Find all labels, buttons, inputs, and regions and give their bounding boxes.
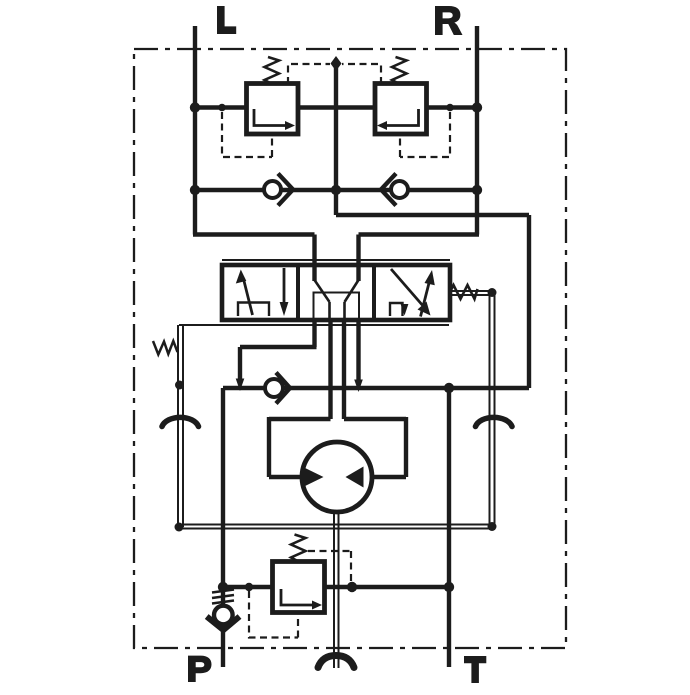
DV1 right position: long diagonal arrow [391, 269, 424, 307]
pilot dashed: RV3 vent to downstream [308, 551, 351, 582]
pilot diamond junction J1 [331, 56, 342, 71]
node: R at relief line [472, 102, 482, 112]
DV1 left position: down arrow [283, 268, 286, 303]
relief valve RV2 internal arrow [385, 109, 419, 126]
relief valve RV2 spring [392, 57, 407, 84]
motor triangle right [346, 467, 364, 488]
pilot dashed: RV2 sense loop [400, 112, 450, 157]
feedback link: right double vertical [490, 293, 495, 528]
feedback pivot dot right bottom [488, 522, 497, 531]
feedback pivot dot right top [488, 288, 497, 297]
wire: R work line jog to valve [359, 235, 480, 282]
relief valve RV1 spring [265, 57, 280, 84]
feedback centring spring left [153, 341, 178, 355]
arrowhead: flow into gallery at x=358.5 [354, 380, 363, 393]
DV1 left position: blocked port box [238, 303, 269, 317]
DV1 centre position: metering box [314, 293, 360, 319]
rotation arc right [476, 417, 513, 426]
wire: tank return from node J1 down and around right side [336, 68, 529, 388]
feedback pivot dot left mid [175, 381, 184, 390]
relief valve RV3 internal arrow [281, 589, 314, 605]
wire: valve inlet stem A with jog [240, 320, 317, 381]
node: L at check line [190, 185, 200, 195]
DV1 left position: up arrow [244, 279, 253, 315]
pilot dashed: RV1 sense loop [222, 112, 272, 157]
shaft drain arc [318, 656, 354, 668]
wire: motor line right (stem C to motor) [344, 320, 406, 477]
DV1 right position: short diagonal arrow [421, 283, 430, 317]
check valve CV4 ball [214, 606, 233, 625]
node: T at gallery [444, 383, 454, 393]
wire: L work line jog to valve [193, 235, 315, 282]
node: L at relief line [190, 102, 200, 112]
wire: valve tank stem D [356, 320, 360, 381]
relief valve RV2 (right) body [375, 84, 427, 135]
node: R at check line [472, 185, 482, 195]
DV1 right position: blocked port box [390, 303, 403, 316]
check valve CV3 (on gallery y=388) [265, 379, 283, 397]
directional spool valve DV1 body [222, 265, 450, 320]
motor triangle left [302, 467, 324, 488]
directional spool valve DV1: thin line above [222, 259, 450, 261]
DV1 right position: port arrowhead [401, 304, 409, 316]
relief valve RV1 (left) body [247, 84, 299, 135]
relief valve RV3 spring [291, 535, 306, 562]
check valve CV4 (P inlet) spring [221, 587, 225, 606]
feedback link: left double vertical [178, 325, 183, 527]
enclosure boundary [134, 49, 566, 648]
node: RV1 pilot tap [218, 104, 226, 112]
wire: R port vertical [475, 26, 479, 235]
relief valve RV3 (bottom) body [273, 562, 325, 613]
wire: relief cross line y=107 [195, 105, 477, 109]
feedback pivot dot left bottom [175, 523, 184, 532]
pilot dashed: RV2 to J1 [342, 64, 381, 84]
feedback link: bottom double horizontal [178, 525, 494, 529]
feedback link: thin line below valve [179, 324, 449, 326]
motor shaft double line [334, 512, 339, 668]
arrowhead: flow into gallery at x=240 [236, 379, 245, 392]
node: tank at check line [331, 185, 341, 195]
port label P [188, 656, 212, 682]
wire: main pressure gallery y=388 [223, 386, 529, 390]
feedback link: lever at valve right [449, 291, 492, 295]
pilot dashed: RV1 to J1 [288, 64, 330, 84]
node: P at relief bottom line [218, 582, 228, 592]
wire: motor line left (stem B to motor) [269, 320, 331, 477]
pilot dashed: RV3 sense loop [249, 591, 298, 638]
node: RV3 vent tap [347, 582, 357, 592]
relief valve RV1 internal arrow [254, 109, 287, 126]
rotation arc left [162, 417, 199, 426]
DV1 right spring [450, 285, 478, 299]
check valve CV4 seat [207, 617, 240, 631]
check valve CV2 (right, on y=190) [391, 181, 408, 198]
DV1 centre position: funnel [315, 280, 359, 320]
port label T [464, 656, 486, 683]
node: RV3 sense tap [245, 583, 253, 591]
wire: L port vertical [193, 26, 197, 235]
wire: bottom relief line y=587 [223, 585, 449, 589]
hydraulic motor M1 [302, 442, 372, 512]
wire: P supply riser [221, 388, 225, 667]
wire: anticavitation check line y=190 [195, 188, 477, 192]
wire: T return riser [447, 388, 451, 667]
port label L [217, 6, 236, 34]
node: T at relief bottom line [444, 582, 454, 592]
DV1 centre position: work port entries [315, 265, 359, 281]
port label R [435, 6, 463, 35]
check valve CV1 (left, on y=190) [264, 181, 281, 198]
node: RV2 pilot tap [446, 104, 454, 112]
